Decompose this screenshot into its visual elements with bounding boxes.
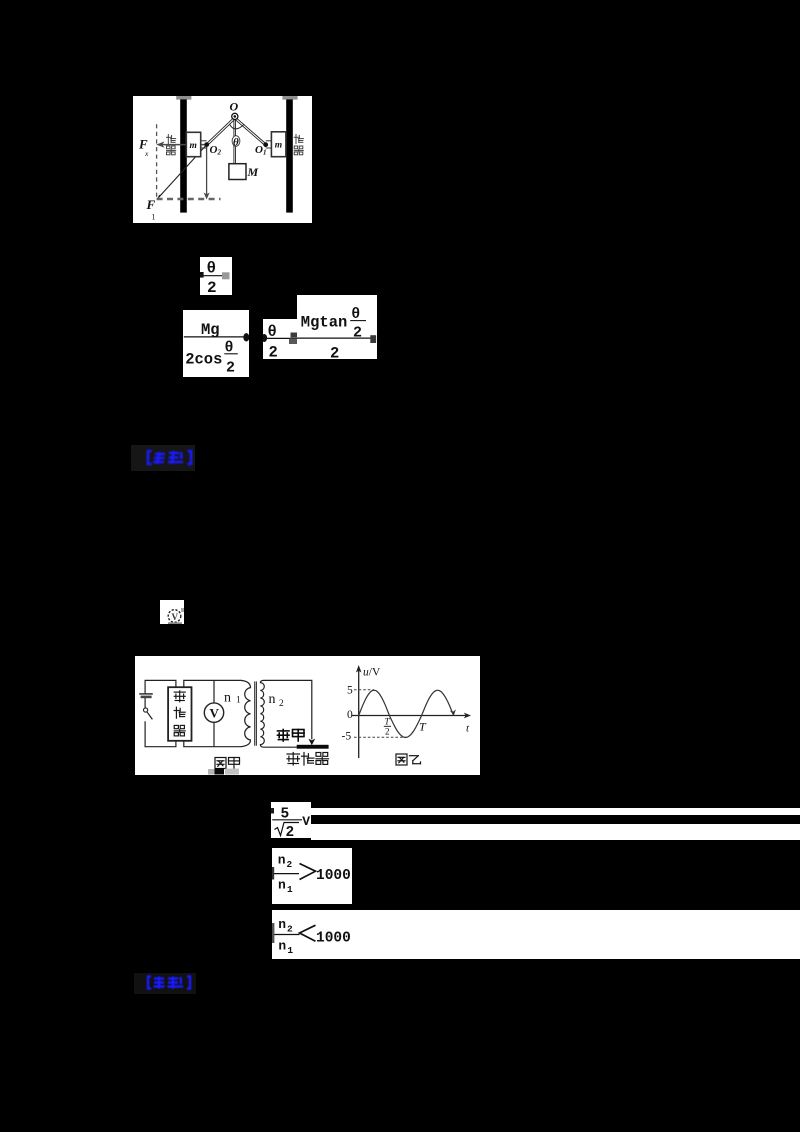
svg-text:0: 0	[347, 709, 353, 721]
svg-text:M: M	[247, 165, 259, 179]
svg-text:O: O	[230, 100, 239, 114]
wire primary loop	[184, 680, 242, 746]
label T/2	[384, 717, 391, 737]
svg-text:2: 2	[287, 859, 293, 870]
svg-text:1000: 1000	[316, 931, 351, 947]
highlighted blue marker 1	[131, 445, 195, 471]
white band 1	[311, 808, 800, 816]
figure: two plates with pulley system	[133, 96, 312, 223]
dashed level +5	[354, 689, 374, 691]
svg-text:V: V	[210, 706, 220, 721]
node O1	[263, 142, 268, 147]
svg-text:T: T	[385, 717, 391, 727]
link O1-block	[266, 141, 272, 148]
block m right	[271, 132, 286, 157]
plate top tab right	[282, 96, 297, 100]
svg-text:x: x	[144, 149, 149, 158]
svg-text:2: 2	[287, 924, 293, 935]
svg-text:F: F	[146, 197, 156, 212]
svg-text:1: 1	[287, 884, 293, 895]
angle theta marker	[232, 136, 240, 149]
coil n1	[241, 680, 251, 746]
svg-text:O2: O2	[210, 144, 222, 157]
svg-text:2: 2	[279, 699, 284, 709]
white band 2	[311, 824, 800, 840]
svg-text:n: n	[278, 877, 286, 892]
label 钢针	[278, 730, 290, 742]
string O-M (vertical)	[234, 120, 236, 164]
svg-text:2: 2	[385, 727, 390, 737]
formula 5/sqrt(2) V	[271, 802, 311, 839]
wire battery loop	[145, 680, 176, 746]
svg-text:T: T	[419, 720, 427, 734]
label 金属板	[287, 753, 300, 766]
svg-text:2: 2	[226, 360, 235, 377]
block M	[229, 164, 246, 180]
svg-text:2: 2	[353, 325, 362, 342]
formula Mgtan(theta/2) over 2	[297, 295, 378, 359]
svg-text:n: n	[269, 692, 276, 707]
pivot O	[232, 113, 238, 119]
svg-text:1000: 1000	[316, 868, 351, 884]
svg-text:1: 1	[152, 213, 156, 222]
battery	[139, 694, 153, 708]
svg-text:5: 5	[347, 685, 353, 697]
wire secondary top	[264, 680, 312, 739]
cursor block	[208, 769, 215, 775]
label 器	[174, 725, 185, 736]
svg-text:Mgtan: Mgtan	[300, 314, 347, 332]
equals sign artifact	[289, 332, 299, 344]
formula n2/n1 < 1000	[272, 910, 800, 959]
force Fx arrow	[156, 141, 207, 147]
svg-text:n: n	[278, 939, 286, 954]
force F1 diagonal arrow	[157, 145, 207, 200]
svg-text:2: 2	[207, 279, 217, 295]
force arrow downward from O2	[204, 146, 210, 200]
svg-text:m: m	[190, 141, 197, 151]
link O2-block	[201, 141, 207, 148]
node O2	[204, 142, 209, 147]
string O-O1	[234, 117, 266, 145]
sine waveform	[359, 690, 454, 737]
svg-text:t: t	[466, 723, 470, 735]
voltmeter icon inline	[160, 600, 184, 624]
angle arc below O	[230, 124, 244, 129]
formula theta/2 (second)	[263, 319, 302, 359]
right plate (挡板) bar	[286, 99, 293, 212]
plate top tab left	[176, 96, 191, 100]
svg-text:n: n	[278, 917, 286, 932]
dashed construction vertical	[156, 124, 158, 199]
waveform end arrow	[450, 709, 456, 715]
figure: transformer circuit and waveform	[135, 656, 480, 775]
label 图乙	[396, 754, 407, 765]
wire secondary bottom	[264, 746, 298, 748]
svg-text:n: n	[224, 691, 231, 706]
string O-O2	[206, 117, 235, 145]
dashed construction horizontal	[157, 198, 221, 200]
left plate (挡板) bar	[180, 99, 187, 212]
svg-text:V: V	[172, 612, 179, 622]
svg-text:2: 2	[269, 344, 278, 360]
formula Mg over 2cos(theta/2)	[183, 310, 249, 377]
coil n2	[260, 680, 264, 747]
svg-text:u/V: u/V	[363, 667, 381, 679]
graph y-axis u/V	[356, 665, 362, 758]
svg-text:θ: θ	[207, 260, 217, 278]
converter box 转换器	[168, 687, 191, 741]
label 转	[174, 691, 185, 702]
svg-text:2: 2	[330, 345, 339, 360]
svg-text:m: m	[275, 141, 282, 151]
svg-text:1: 1	[287, 945, 293, 956]
needle arrow	[308, 739, 315, 746]
switch S	[144, 708, 153, 720]
graph x-axis t	[352, 713, 471, 719]
voltmeter V	[204, 703, 223, 722]
wire voltmeter branch	[213, 680, 215, 746]
label 图甲	[215, 758, 226, 769]
formula theta/2	[200, 257, 232, 295]
svg-text:2cos: 2cos	[185, 351, 222, 369]
dashed level -5	[354, 736, 407, 738]
metal plate	[297, 745, 329, 749]
svg-text:1: 1	[236, 695, 241, 705]
svg-text:V: V	[302, 814, 310, 829]
svg-text:-5: -5	[342, 731, 352, 743]
block m left	[186, 132, 200, 156]
label dangban right	[294, 135, 303, 144]
svg-text:2: 2	[286, 825, 295, 839]
label dangban left	[167, 135, 176, 144]
highlighted blue marker 2	[134, 973, 196, 994]
transformer core	[255, 681, 257, 745]
svg-text:n: n	[278, 852, 286, 867]
svg-text:θ: θ	[233, 137, 239, 149]
formula n2/n1 > 1000	[272, 848, 352, 905]
label 换	[174, 707, 185, 718]
